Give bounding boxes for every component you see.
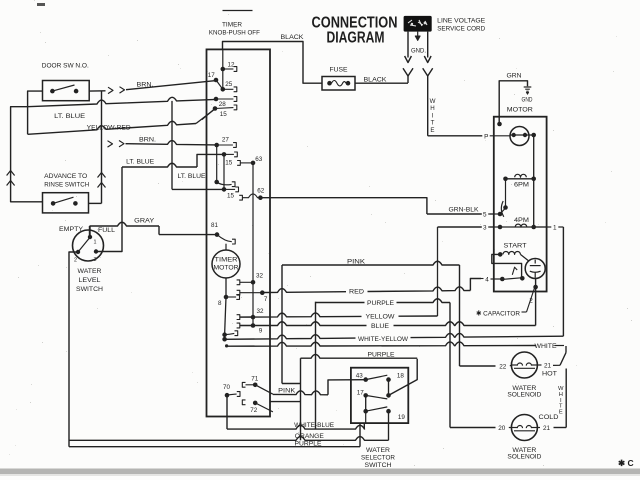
- svg-text:9: 9: [259, 327, 263, 334]
- svg-text:SERVICE CORD: SERVICE CORD: [437, 25, 485, 32]
- svg-text:63: 63: [255, 156, 263, 163]
- svg-text:I: I: [432, 112, 434, 119]
- svg-text:32: 32: [256, 273, 264, 280]
- svg-text:TIMER: TIMER: [222, 22, 242, 29]
- svg-text:72: 72: [250, 407, 258, 414]
- svg-text:2: 2: [74, 258, 77, 264]
- svg-text:BLACK: BLACK: [281, 34, 305, 41]
- svg-text:T: T: [431, 120, 435, 127]
- svg-text:18: 18: [397, 373, 405, 380]
- svg-text:DOOR SW N.O.: DOOR SW N.O.: [42, 62, 89, 69]
- svg-text:PURPLE: PURPLE: [368, 352, 395, 359]
- svg-text:PURPLE: PURPLE: [295, 441, 322, 448]
- svg-text:GND: GND: [522, 97, 533, 104]
- svg-text:15: 15: [220, 111, 228, 118]
- svg-text:FULL: FULL: [98, 227, 115, 234]
- svg-text:✱ C: ✱ C: [618, 458, 634, 468]
- svg-text:BRN.: BRN.: [137, 82, 154, 89]
- svg-text:21: 21: [544, 363, 552, 370]
- svg-text:PINK: PINK: [347, 259, 366, 266]
- svg-text:7: 7: [264, 296, 268, 303]
- svg-text:WHITE-YELLOW: WHITE-YELLOW: [358, 336, 409, 343]
- svg-text:21: 21: [543, 425, 551, 432]
- svg-text:GRN: GRN: [507, 73, 522, 80]
- svg-text:MOTOR: MOTOR: [507, 107, 533, 114]
- svg-text:17: 17: [357, 389, 365, 396]
- svg-text:LEVEL: LEVEL: [79, 277, 101, 284]
- svg-text:P: P: [484, 134, 488, 141]
- svg-text:WATER: WATER: [78, 268, 102, 275]
- svg-text:PINK: PINK: [278, 388, 296, 395]
- svg-text:FUSE: FUSE: [330, 67, 348, 74]
- svg-text:19: 19: [398, 414, 406, 421]
- svg-text:EMPTY: EMPTY: [59, 226, 84, 233]
- svg-text:LT. BLUE: LT. BLUE: [178, 173, 206, 180]
- svg-text:LT. BLUE: LT. BLUE: [54, 113, 85, 120]
- svg-text:20: 20: [498, 425, 506, 432]
- svg-text:RED: RED: [349, 289, 364, 296]
- svg-text:COLD: COLD: [539, 414, 559, 421]
- svg-text:4PM: 4PM: [514, 217, 529, 224]
- svg-text:28: 28: [219, 101, 227, 108]
- svg-text:HOT: HOT: [542, 371, 557, 378]
- svg-text:71: 71: [251, 376, 259, 383]
- svg-text:12: 12: [228, 62, 236, 69]
- svg-text:4: 4: [485, 276, 489, 283]
- svg-text:43: 43: [356, 373, 364, 380]
- svg-text:SOLENOID: SOLENOID: [507, 392, 541, 399]
- svg-text:1: 1: [553, 225, 557, 232]
- svg-text:GRN-BLK: GRN-BLK: [449, 206, 480, 213]
- svg-text:E: E: [430, 127, 434, 134]
- svg-text:62: 62: [257, 188, 265, 195]
- svg-text:5: 5: [483, 211, 487, 218]
- svg-text:ORANGE: ORANGE: [295, 433, 324, 440]
- svg-text:6PM: 6PM: [514, 182, 529, 189]
- svg-text:15: 15: [225, 159, 233, 166]
- svg-text:32: 32: [257, 308, 265, 315]
- svg-text:WATER: WATER: [366, 447, 390, 454]
- svg-text:27: 27: [222, 137, 230, 144]
- svg-text:3: 3: [483, 225, 487, 232]
- svg-text:START: START: [504, 242, 527, 249]
- svg-text:SWITCH: SWITCH: [365, 462, 392, 469]
- svg-text:DIAGRAM: DIAGRAM: [327, 30, 385, 47]
- svg-text:GND.: GND.: [411, 48, 426, 55]
- svg-text:W: W: [430, 98, 436, 105]
- svg-text:81: 81: [211, 222, 219, 229]
- svg-text:LT. BLUE: LT. BLUE: [126, 159, 154, 166]
- svg-text:BRN.: BRN.: [139, 136, 156, 143]
- svg-text:✱ CAPACITOR: ✱ CAPACITOR: [476, 309, 520, 317]
- svg-text:SELECTOR: SELECTOR: [361, 455, 395, 462]
- svg-text:E: E: [559, 410, 563, 416]
- svg-text:SWITCH: SWITCH: [76, 286, 103, 293]
- svg-text:YELLOW: YELLOW: [366, 314, 396, 321]
- svg-text:WHITE-BLUE: WHITE-BLUE: [294, 422, 334, 429]
- svg-text:70: 70: [223, 384, 231, 391]
- svg-text:H: H: [430, 105, 434, 112]
- svg-text:BLACK: BLACK: [364, 77, 388, 84]
- svg-text:MOTOR: MOTOR: [214, 265, 240, 272]
- svg-text:BLUE: BLUE: [371, 323, 389, 330]
- svg-text:LINE VOLTAGE: LINE VOLTAGE: [437, 18, 485, 25]
- svg-text:3: 3: [94, 257, 97, 263]
- svg-text:SOLENOID: SOLENOID: [507, 454, 541, 461]
- svg-text:YELLOW-RED: YELLOW-RED: [87, 124, 131, 131]
- svg-text:TIMER: TIMER: [215, 257, 239, 264]
- svg-text:8: 8: [218, 300, 222, 307]
- svg-text:PURPLE: PURPLE: [367, 300, 394, 307]
- svg-text:15: 15: [227, 193, 235, 200]
- svg-text:25: 25: [225, 81, 233, 88]
- svg-text:GRAY: GRAY: [134, 218, 155, 225]
- svg-text:22: 22: [499, 363, 507, 370]
- svg-text:17: 17: [208, 72, 216, 79]
- svg-text:RINSE SWITCH: RINSE SWITCH: [44, 182, 89, 189]
- svg-text:1: 1: [94, 240, 97, 246]
- svg-text:KNOB-PUSH OFF: KNOB-PUSH OFF: [209, 30, 260, 37]
- svg-text:ADVANCE TO: ADVANCE TO: [44, 173, 87, 180]
- svg-text:WHITE: WHITE: [535, 343, 557, 350]
